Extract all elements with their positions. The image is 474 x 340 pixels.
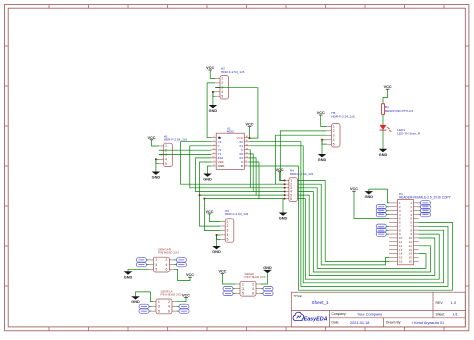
power flag VCC right of SENFLA bbox=[182, 294, 190, 298]
svg-text:GND: GND bbox=[124, 275, 133, 279]
svg-text:3: 3 bbox=[333, 134, 335, 138]
net port flag P1 left pin 3 bbox=[386, 210, 389, 212]
wire H2 pin 2 to U1 pin Y0 bbox=[207, 83, 215, 138]
svg-text:4: 4 bbox=[166, 263, 168, 267]
svg-text:GND: GND bbox=[318, 158, 327, 162]
wire bus loop H4 row 4 jog to P1 right pin 12 bbox=[298, 192, 431, 273]
junction H5 pin4/5 bbox=[321, 139, 323, 141]
svg-text:1.0: 1.0 bbox=[451, 300, 457, 305]
svg-text:5: 5 bbox=[165, 162, 167, 166]
svg-text:1: 1 bbox=[242, 282, 244, 286]
svg-text:Your Company: Your Company bbox=[357, 313, 382, 317]
wire bus loop H4 row 1 jog to P1 left pin 16 bbox=[298, 181, 389, 262]
wire H4 row 5 horizontal bbox=[200, 194, 284, 196]
junction U1 VCC rail bbox=[249, 137, 251, 139]
wire U1 X3 down to H4 row bbox=[249, 158, 256, 195]
svg-text:HEADER-FEMALE-2.5_2X16 COPY: HEADER-FEMALE-2.5_2X16 COPY bbox=[399, 196, 452, 200]
wire H1 pin 3 to U1 Y1 bbox=[159, 153, 212, 155]
junction VEE riser H4 row 5 bbox=[199, 194, 201, 196]
wire U1 X2 row extension to bus riser bbox=[249, 141, 301, 143]
wire H1 pins 4-5 to ground bbox=[156, 159, 159, 163]
svg-text:3: 3 bbox=[158, 305, 160, 309]
svg-text:GND: GND bbox=[131, 300, 140, 304]
svg-text:GND: GND bbox=[152, 176, 161, 180]
svg-text:2: 2 bbox=[221, 81, 223, 85]
wire VCC to H5 pin 1 bbox=[321, 115, 327, 126]
svg-text:RESISTOR-PTH-0.6: RESISTOR-PTH-0.6 bbox=[385, 109, 414, 113]
net port flag SENFLA pin 3 bbox=[149, 305, 152, 307]
wire VCC to H4 pin 1 bbox=[280, 172, 285, 181]
net port flag P1 right pin 3 bbox=[419, 210, 421, 212]
wire H4 pin 6 to ground bbox=[282, 199, 285, 211]
svg-text:5: 5 bbox=[158, 309, 160, 313]
junction H4 pin 1 bbox=[284, 180, 286, 182]
wire U1 A down to H4 row bbox=[249, 162, 259, 199]
wire H5 pins 4-5 to ground bbox=[322, 140, 327, 144]
junction H2 pin4/5 bbox=[212, 91, 214, 93]
wire U1 INH riser down to H4 row 4 bbox=[196, 158, 284, 192]
svg-text:HDR-F-2.54_1x5: HDR-F-2.54_1x5 bbox=[225, 212, 249, 216]
svg-text:3: 3 bbox=[165, 153, 167, 157]
connector SENW PIN HEAD 2X3 bbox=[235, 272, 265, 296]
ground GND left of SENFLA bbox=[131, 296, 140, 304]
net port flag SENFLA pin 6 bbox=[177, 310, 180, 312]
svg-text:PIN HEAD 2X3: PIN HEAD 2X3 bbox=[245, 275, 266, 279]
svg-text:Company:: Company: bbox=[332, 312, 347, 316]
wire bus loop U1 B riser to P1 right pin 6 bbox=[299, 166, 453, 290]
net port flag SENW pin 4 bbox=[261, 288, 264, 290]
wire bus loop H4 row 6 jog to P1 right pin 9 bbox=[298, 199, 440, 280]
wire U1 Y2 riser down to H4 row 2 bbox=[180, 142, 284, 185]
wire H3 pins 4-5 to ground bbox=[217, 235, 221, 239]
wire U1 Y riser down to H4 row 3 bbox=[190, 146, 284, 188]
power flag VCC for P1 bbox=[350, 187, 358, 191]
net port flag P1 left pin 7 bbox=[386, 225, 389, 227]
junction H4 pin 4 bbox=[284, 191, 286, 193]
svg-text:6: 6 bbox=[252, 292, 254, 296]
ground GND below H3 bbox=[212, 244, 221, 254]
svg-text:PIN HEAD 2X3: PIN HEAD 2X3 bbox=[161, 292, 182, 296]
svg-text:PIN HEAD 2X3: PIN HEAD 2X3 bbox=[158, 251, 179, 255]
wire VCC to P1 pin 5 bbox=[354, 191, 389, 218]
svg-text:Sheet_1: Sheet_1 bbox=[312, 300, 330, 305]
svg-text:Sheet:: Sheet: bbox=[436, 312, 446, 316]
svg-text:EasyEDA: EasyEDA bbox=[304, 316, 328, 322]
net port flag P1 right pin 4 bbox=[419, 214, 421, 216]
svg-text:5: 5 bbox=[333, 142, 335, 146]
power flag VCC left of SENW bbox=[218, 270, 226, 274]
junction H1 pin4/5 bbox=[155, 158, 157, 160]
title block bbox=[291, 292, 465, 327]
connector H3 HDR-F-2.54_1x5 bbox=[220, 209, 248, 242]
svg-text:REV:: REV: bbox=[436, 301, 444, 305]
svg-text:LED-TH 3mm_R: LED-TH 3mm_R bbox=[397, 131, 421, 135]
svg-text:2: 2 bbox=[165, 149, 167, 153]
svg-text:VCC: VCC bbox=[317, 111, 325, 115]
svg-text:VCC: VCC bbox=[147, 136, 155, 140]
junction H4 pin 5 bbox=[284, 194, 286, 196]
wire VCC to R1 bbox=[383, 89, 388, 104]
svg-text:VCC: VCC bbox=[275, 168, 283, 172]
svg-text:6: 6 bbox=[166, 268, 168, 272]
net port flag P1 left pin 9 bbox=[386, 233, 389, 235]
net port flag SENW pin 6 bbox=[261, 292, 264, 294]
wire H2 pins 4-5 to ground bbox=[213, 92, 215, 96]
net port flag SENGAR pin 1 bbox=[146, 259, 149, 261]
svg-text:2: 2 bbox=[168, 300, 170, 304]
svg-text:VCC: VCC bbox=[205, 210, 213, 214]
svg-text:Drawn By:: Drawn By: bbox=[386, 321, 401, 325]
svg-text:HDR-F-2.54_1x6: HDR-F-2.54_1x6 bbox=[290, 172, 314, 176]
wire SENGAR pin 6 to VCC bbox=[174, 269, 190, 280]
wire LED1 to ground bbox=[382, 130, 384, 147]
svg-text:2: 2 bbox=[227, 224, 229, 228]
wire U1 VEE riser down to H4 row 5 and H3 pin 2 bbox=[200, 162, 221, 226]
ground GND below H4 bbox=[279, 211, 288, 221]
ground GND below H1 bbox=[152, 170, 161, 180]
wire GND to P1 pin 1 bbox=[369, 189, 389, 203]
wire H5 pin 2 left and down to H4 pin 1 bbox=[280, 131, 326, 181]
junction riser H3 pin3 bbox=[203, 198, 205, 200]
svg-text:3: 3 bbox=[227, 229, 229, 233]
svg-text:2021-01-18: 2021-01-18 bbox=[350, 321, 369, 325]
wire R1 to LED1 bbox=[382, 114, 384, 125]
connector H2 HDR-F-2.54_1x5 bbox=[215, 67, 244, 100]
svg-text:4: 4 bbox=[165, 158, 167, 162]
svg-text:4: 4 bbox=[168, 305, 170, 309]
svg-text:Date:: Date: bbox=[332, 321, 340, 325]
wire H2 pin 3 VCC rail to U1 VCC pin bbox=[215, 88, 258, 138]
junction H4 pin 6 bbox=[284, 198, 286, 200]
power flag VCC for U1 bbox=[245, 123, 253, 127]
net port flag SENGAR pin 3 bbox=[146, 264, 149, 266]
junction H3 pin4/5 bbox=[216, 234, 218, 236]
wire bus loop U1 X2 riser to P1 right pin 7 bbox=[301, 142, 448, 287]
net port flag SENGAR pin 4 bbox=[174, 264, 177, 266]
ground GND left of SENGAR bbox=[124, 269, 133, 279]
power flag VCC for H4 bbox=[275, 168, 283, 172]
svg-text:VCC: VCC bbox=[182, 294, 190, 298]
op IC U1 4052 analog multiplexer bbox=[211, 126, 249, 169]
svg-text:1: 1 bbox=[227, 220, 229, 224]
svg-text:GND: GND bbox=[209, 109, 218, 113]
resistor R1 RESISTOR-PTH-0.6 bbox=[382, 104, 414, 115]
ground GND below H2 bbox=[209, 103, 218, 113]
power flag VCC right of SENGAR bbox=[186, 273, 194, 277]
svg-text:VCC: VCC bbox=[350, 187, 358, 191]
wire U1 X0 down to H4 row bbox=[249, 154, 253, 192]
svg-text:5: 5 bbox=[221, 94, 223, 98]
wire bus loop H4 row 2 jog to P1 left pin 15 bbox=[298, 184, 389, 265]
svg-text:GND: GND bbox=[379, 153, 388, 157]
svg-text:VCC: VCC bbox=[206, 66, 214, 70]
svg-text:TITLE:: TITLE: bbox=[294, 294, 303, 298]
connector H4 HDR-F-2.54_1x6 bbox=[284, 169, 313, 202]
svg-text:VCC: VCC bbox=[218, 270, 226, 274]
svg-text:GND: GND bbox=[365, 195, 374, 199]
svg-text:3: 3 bbox=[242, 287, 244, 291]
LED LED1 LED-TH 3mm_R bbox=[380, 125, 421, 135]
connector SENFLA PIN HEAD 2X3 bbox=[151, 289, 181, 313]
svg-text:4: 4 bbox=[333, 138, 335, 142]
net port flag P1 left pin 4 bbox=[386, 214, 389, 216]
net port flag P1 right pin 2 bbox=[419, 206, 421, 208]
svg-text:VCC: VCC bbox=[384, 85, 392, 89]
svg-text:1: 1 bbox=[155, 258, 157, 262]
net port flag SENW pin 5 bbox=[233, 292, 236, 294]
svg-text:3: 3 bbox=[155, 263, 157, 267]
svg-text:2: 2 bbox=[333, 129, 335, 133]
svg-text:4: 4 bbox=[252, 287, 254, 291]
svg-text:16: 16 bbox=[409, 259, 413, 263]
net port flag SENFLA pin 5 bbox=[149, 310, 152, 312]
wire riser to H3 pin 3 bbox=[204, 199, 220, 231]
EasyEDA logo bbox=[293, 312, 328, 322]
svg-text:VCC: VCC bbox=[245, 123, 253, 127]
power flag VCC for H1 bbox=[147, 136, 155, 140]
svg-text:GND: GND bbox=[203, 178, 212, 182]
svg-text:1: 1 bbox=[221, 77, 223, 81]
net port flag P1 right pin 1 bbox=[419, 202, 421, 204]
svg-text:1: 1 bbox=[333, 125, 335, 129]
ground GND for P1 bbox=[365, 189, 374, 199]
svg-text:HDR-F-2.54_1x5: HDR-F-2.54_1x5 bbox=[164, 138, 188, 142]
svg-text:B: B bbox=[241, 164, 243, 168]
svg-text:5: 5 bbox=[155, 268, 157, 272]
wire VCC to H1 pin 1 bbox=[152, 140, 159, 146]
svg-text:2: 2 bbox=[166, 258, 168, 262]
svg-text:HDR-F-2.54_1x5: HDR-F-2.54_1x5 bbox=[331, 115, 355, 119]
net port flag SENFLA pin 4 bbox=[177, 305, 180, 307]
ground GND below H5 bbox=[318, 152, 327, 162]
svg-text:VCC: VCC bbox=[186, 273, 194, 277]
power flag VCC for H3 bbox=[205, 210, 213, 214]
svg-text:1: 1 bbox=[158, 300, 160, 304]
connector H1 HDR-F-2.54_1x5 bbox=[159, 134, 187, 166]
svg-text:1: 1 bbox=[165, 144, 167, 148]
junction H4 pin 3 bbox=[284, 187, 286, 189]
wire SENW pin 1 to VCC bbox=[223, 274, 236, 284]
wire VCC to U1 pin 16 bbox=[249, 127, 251, 139]
wire U1 X down to H4 row bbox=[249, 150, 250, 188]
wire VCC to H3 pin 1 bbox=[210, 214, 221, 222]
svg-text:4: 4 bbox=[227, 233, 229, 237]
wire SENFLA pin 1 up and over to ground bbox=[136, 292, 154, 302]
wire SENGAR pin 5 to ground bbox=[128, 268, 149, 270]
svg-text:GND: GND bbox=[218, 164, 226, 168]
wire bus loop H4 row 3 jog to P1 right pin 14 bbox=[298, 188, 426, 269]
power flag VCC for H5 bbox=[317, 111, 325, 115]
svg-text:4052: 4052 bbox=[227, 130, 234, 134]
svg-text:16: 16 bbox=[399, 259, 403, 263]
svg-text:GND: GND bbox=[212, 250, 221, 254]
wire H5 pin 3 left and down to H4 pin 2 bbox=[276, 135, 327, 184]
wire H1 pin 2 to U1 Y3 bbox=[159, 149, 212, 151]
ground GND below U1 bbox=[203, 172, 212, 182]
svg-text:6: 6 bbox=[290, 197, 292, 201]
net port flag P1 left pin 2 bbox=[386, 206, 389, 208]
svg-text:5: 5 bbox=[242, 292, 244, 296]
svg-text:4: 4 bbox=[221, 90, 223, 94]
junction H4 pin 2 bbox=[284, 183, 286, 185]
svg-text:HDR-F-2.54_1x5: HDR-F-2.54_1x5 bbox=[221, 70, 245, 74]
wire SENW pin 2 to ground bbox=[261, 274, 268, 285]
wire U1 B row long horizontal to bus riser bbox=[249, 165, 299, 167]
wire bus loop U1 X1 riser to P1 right pin 8 bbox=[303, 146, 443, 283]
wire SENFLA pin 2 to VCC bbox=[177, 298, 186, 302]
connector SENGAR PIN HEAD 2X3 bbox=[149, 248, 179, 272]
wire H4 row 6 horizontal to H3 pin 3 riser bbox=[204, 198, 284, 200]
svg-text:6: 6 bbox=[168, 309, 170, 313]
svg-text:I Ketut Aryasuta 01: I Ketut Aryasuta 01 bbox=[412, 321, 444, 325]
net port flag SENGAR pin 2 bbox=[174, 259, 177, 261]
connector H5 HDR-F-2.54_1x5 bbox=[327, 111, 355, 147]
wire bus loop H4 row 5 jog to P1 right pin 10 bbox=[298, 195, 435, 276]
svg-text:GND: GND bbox=[263, 266, 272, 270]
ground GND below LED1 bbox=[379, 147, 388, 157]
connector P1 HEADER-FEMALE-2.5_2X16 COPY bbox=[389, 192, 452, 265]
power flag VCC for R1 bbox=[384, 85, 392, 89]
wire VCC to H2 pin 1 bbox=[210, 70, 215, 78]
svg-text:1/1: 1/1 bbox=[453, 313, 458, 317]
net port flag SENW pin 3 bbox=[233, 288, 236, 290]
wire U1 X1 row extension to bus riser bbox=[249, 145, 303, 147]
svg-text:5: 5 bbox=[227, 238, 229, 242]
svg-text:GND: GND bbox=[279, 217, 288, 221]
ground GND right of SENW bbox=[263, 266, 272, 273]
wire U1 GND pin to ground bbox=[208, 166, 212, 172]
net port flag P1 left pin 8 bbox=[386, 229, 389, 231]
power flag VCC for H2 bbox=[206, 66, 214, 70]
svg-text:2: 2 bbox=[252, 282, 254, 286]
